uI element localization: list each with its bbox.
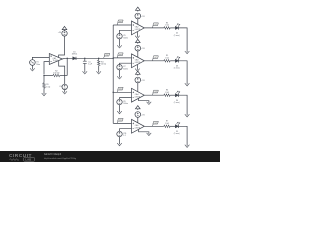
voltage source V4 (+5V supply) — [135, 13, 145, 19]
svg-text:1 kΩ: 1 kΩ — [46, 86, 51, 88]
resistor R3 (LED ballast 1k) — [164, 22, 170, 29]
op-amp OA1 — [49, 54, 62, 65]
svg-text:50m: 50m — [36, 64, 40, 66]
resistor R5 (LED ballast 1k) — [164, 55, 170, 62]
op-amp comparator OA3 — [132, 54, 145, 68]
wire R1 to ground — [43, 88, 45, 92]
wire OA5 output to R — [144, 125, 164, 127]
voltage source V6 (+5V supply) — [135, 45, 145, 51]
wire LED4 to ground — [179, 126, 188, 144]
voltage source V3 (-5V supply for OA1) — [59, 84, 67, 89]
node flag env at OA5 input — [117, 118, 123, 123]
svg-text:10 kΩ: 10 kΩ — [101, 64, 107, 66]
svg-text:100 kΩ: 100 kΩ — [53, 73, 60, 75]
node flag env at OA3 input — [117, 53, 123, 58]
ground below V11 — [117, 137, 122, 146]
wire OA1 V- pin to V3 — [59, 61, 65, 84]
ground below C1 — [83, 70, 88, 74]
svg-text:LAB: LAB — [25, 158, 31, 162]
resistor R7 (LED ballast 1k) — [164, 121, 170, 128]
wire OA3 output to R — [144, 60, 164, 62]
node flag led2 on output — [152, 56, 158, 61]
LED3 indicator — [174, 91, 180, 104]
wire distribution bus — [112, 25, 114, 123]
wire reference V9 to inverting input — [120, 98, 132, 100]
capacitor C1 (smoothing) — [83, 61, 93, 65]
diode D1 (precision rectifier) — [72, 51, 78, 60]
ground below LED2 — [185, 83, 190, 86]
wire R7 to LED4 — [170, 125, 175, 127]
ground below V7 — [117, 70, 122, 79]
svg-text:(5 mm): (5 mm) — [174, 102, 180, 104]
node flag led4 on output — [152, 121, 158, 126]
voltage source V11 (threshold 1.2) — [117, 131, 127, 137]
wire inverting node down to R1 — [43, 76, 45, 83]
ground below LED3 — [185, 114, 190, 117]
power arrow above V2 — [62, 26, 67, 30]
svg-text:1 kΩ: 1 kΩ — [165, 123, 169, 125]
ground below V5 — [117, 39, 122, 48]
svg-text:o4: o4 — [155, 122, 157, 124]
footer watermark bar — [0, 151, 220, 162]
node rail/C1 junction — [84, 58, 85, 59]
node flag led1 on output — [152, 23, 158, 28]
wire reference V5 to inverting input — [120, 30, 132, 33]
op-amp comparator OA2 — [132, 21, 145, 35]
wire bus to comparator OA5 non-inverting input — [113, 122, 131, 124]
power arrow above V4 — [136, 7, 141, 11]
svg-text:1.2: 1.2 — [123, 135, 126, 137]
resistor R6 (LED ballast 1k) — [164, 90, 170, 97]
wire V6 to OA3 V+ pin — [137, 51, 139, 57]
svg-text:1 kΩ: 1 kΩ — [165, 57, 169, 59]
wire LED1 to ground — [179, 28, 188, 51]
svg-text:300m: 300m — [123, 37, 128, 39]
svg-text:env: env — [119, 120, 122, 122]
wire R6 to LED3 — [170, 94, 175, 96]
ground at OA2 V- pin — [135, 32, 140, 39]
svg-text:env: env — [106, 54, 109, 56]
op-amp comparator OA4 — [132, 88, 145, 102]
wire V2 to OA1 V+ pin — [59, 36, 65, 57]
svg-text:env: env — [119, 21, 122, 23]
wire R5 to LED2 — [170, 60, 175, 62]
wire OA2 output to R — [144, 27, 164, 29]
wire bus to comparator OA3 non-inverting input — [113, 57, 131, 59]
svg-text:LM741: LM741 — [135, 96, 141, 98]
power arrow above V8 — [136, 71, 141, 75]
svg-text:900m: 900m — [123, 103, 128, 105]
wire rail to R4 — [98, 58, 100, 60]
svg-text:env: env — [119, 54, 122, 56]
wire V10 to OA5 V+ pin — [137, 117, 139, 122]
LED4 indicator — [174, 122, 180, 135]
ground below R4 — [96, 70, 101, 74]
wire bus to comparator OA2 non-inverting input — [113, 24, 131, 26]
svg-text:LM741: LM741 — [135, 127, 141, 129]
svg-text:TL081: TL081 — [53, 60, 58, 62]
node rail/R4 junction — [98, 58, 99, 59]
wire LED3 to ground — [179, 95, 188, 114]
ground below V3 — [62, 90, 67, 94]
svg-text:LM741: LM741 — [135, 29, 141, 31]
svg-text:1 kΩ: 1 kΩ — [165, 25, 169, 27]
resistor R1 (gain set 1k) — [43, 83, 51, 89]
wire reference V7 to inverting input — [120, 63, 132, 64]
ground below LED1 — [185, 51, 190, 54]
wire V4 to OA2 V+ pin — [137, 19, 139, 24]
wire output to feedback resistor — [66, 58, 68, 75]
svg-text:o2: o2 — [155, 57, 157, 59]
node rail/bus junction — [112, 58, 113, 59]
ground at OA3 V- pin — [135, 65, 140, 72]
wire V1 to op-amp non-inverting input — [32, 57, 49, 59]
svg-text:(5 mm): (5 mm) — [174, 68, 180, 70]
ground at OA4 V- pin — [139, 99, 152, 105]
voltage source V5 (threshold 300m) — [117, 34, 129, 40]
wire OA1 output — [62, 57, 72, 60]
LED1 indicator — [174, 24, 180, 37]
voltage source V9 (threshold 900m) — [117, 99, 129, 105]
node flag env at OA4 input — [117, 87, 123, 92]
svg-text:o1: o1 — [155, 24, 157, 26]
node output/feedback junction — [66, 58, 67, 59]
node feedback/R1 junction — [43, 75, 44, 76]
svg-text:env: env — [119, 88, 122, 90]
node flag env on rail — [104, 53, 110, 58]
svg-text:(5 mm): (5 mm) — [174, 133, 180, 135]
resistor R4 (bleed 10k) — [97, 60, 106, 65]
svg-text:bah123 / Manip3: bah123 / Manip3 — [44, 154, 62, 156]
wire C1 to ground — [84, 63, 86, 70]
wire rectifier output rail — [76, 57, 113, 59]
voltage source V7 (threshold 600m) — [117, 65, 129, 71]
wire bus to comparator OA4 non-inverting input — [113, 91, 131, 93]
wire R4 to ground — [98, 66, 100, 71]
svg-text:600m: 600m — [123, 68, 128, 70]
ground below V1 — [30, 65, 35, 71]
wire rail to C1 — [84, 58, 86, 61]
voltage source V8 (+5V supply) — [135, 77, 145, 83]
wire feedback rail — [44, 75, 67, 77]
svg-text:http//circuitlab.com/c/5pq6hu2: http//circuitlab.com/c/5pq6hu2799kg — [44, 157, 76, 160]
LED2 indicator — [174, 57, 180, 70]
node flag env at OA2 input — [117, 20, 123, 25]
node flag led3 on output — [152, 90, 158, 95]
svg-text:1 kΩ: 1 kΩ — [165, 92, 169, 94]
wire R3 to LED1 — [170, 27, 175, 29]
wire LED2 to ground — [179, 61, 188, 83]
op-amp comparator OA5 — [132, 119, 145, 133]
voltage source V10 (+5V supply) — [135, 112, 145, 118]
svg-text:1N914: 1N914 — [72, 54, 78, 56]
power arrow above V10 — [136, 106, 141, 110]
voltage source V2 (+5V supply for OA1) — [58, 31, 67, 36]
ground at OA5 V- pin — [139, 130, 152, 136]
ground below LED4 — [185, 145, 190, 148]
ground below V9 — [117, 105, 122, 114]
svg-text:(5 mm): (5 mm) — [174, 35, 180, 37]
power arrow above V6 — [136, 39, 141, 43]
wire OA4 output to R — [144, 94, 164, 96]
ground below R1 — [42, 92, 47, 96]
resistor R2 (feedback 100k) — [53, 70, 60, 76]
svg-text:LM741: LM741 — [135, 62, 141, 64]
voltage source V1 (signal input, sine) — [30, 60, 41, 66]
wire reference V11 to inverting input — [120, 129, 132, 132]
wire V8 to OA4 V+ pin — [137, 83, 139, 92]
svg-text:o3: o3 — [155, 91, 157, 93]
wire OA1 inverting input to feedback node — [44, 62, 49, 75]
node bus/row3 tap junction — [112, 92, 113, 93]
